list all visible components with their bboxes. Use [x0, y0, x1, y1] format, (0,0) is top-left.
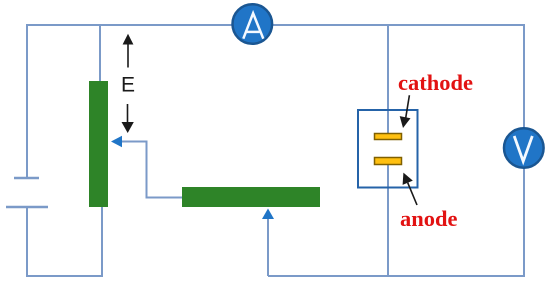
svg-text:cathode: cathode	[398, 70, 473, 95]
svg-text:E: E	[121, 74, 135, 97]
svg-text:anode: anode	[400, 206, 458, 231]
